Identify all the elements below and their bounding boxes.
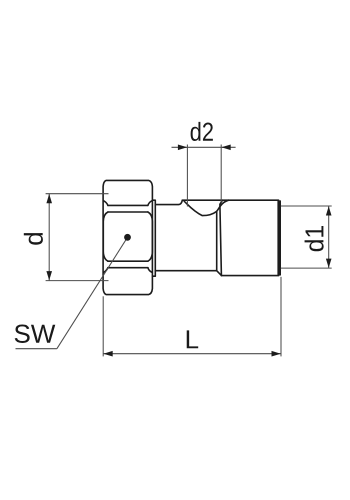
dim d extension line top [46,193,109,195]
hex nut upper facet line 1 [108,204,148,206]
collar washer [153,200,156,276]
hex nut chamfer arc right middle [148,212,153,261]
arrow d top [46,194,52,203]
hex nut upper facet line 2 [108,211,148,213]
neck / cylinder top edge [182,199,278,201]
label d1 [305,226,324,251]
label d [24,233,43,245]
neck bottom outline [155,270,216,272]
dim d1 line [328,206,330,268]
thread runout scallop [184,200,228,215]
arrow d1 bottom [326,259,332,268]
dim d2 line [172,146,236,148]
SW leader line [57,237,128,348]
cylinder inner chamfer line [216,211,218,270]
hex nut outline [103,180,152,294]
dim d extension line bottom [46,280,109,282]
dim L line [103,353,281,355]
hex nut chamfer arc top-left [104,201,108,206]
hex nut chamfer arc top-right [148,201,152,206]
arrow d bottom [46,271,52,280]
hex nut lower facet line 2 [108,267,148,269]
neck top outline with step [155,200,182,204]
SW landing line [16,348,57,350]
cylinder bottom-left chamfer [217,271,222,276]
hex nut chamfer arc left middle [103,212,108,261]
hex nut chamfer arc bottom-right [148,268,152,273]
cylinder left face with chamfer [220,200,223,275]
label SW [15,325,56,343]
hex nut lower facet line 1 [108,260,148,262]
arrow L left [103,351,112,357]
dim L extension line left [102,296,104,356]
cylinder right end face [277,200,281,275]
hex nut chamfer arc bottom-left [104,268,108,273]
dim d1 extension line bottom [281,267,332,269]
label d2 [191,122,213,141]
arrow d2 right [221,145,230,151]
label L [187,330,198,348]
leader dot [124,234,131,241]
arrow d2 left [178,145,187,151]
dim d2 extension line right [220,145,222,203]
dim d1 extension line top [281,205,332,207]
dim d2 extension line left [186,145,188,207]
dim d line [48,194,50,281]
arrow d1 top [326,206,332,215]
cylinder bottom edge [221,275,278,277]
arrow L right [272,351,281,357]
dim L extension line right [280,277,282,357]
